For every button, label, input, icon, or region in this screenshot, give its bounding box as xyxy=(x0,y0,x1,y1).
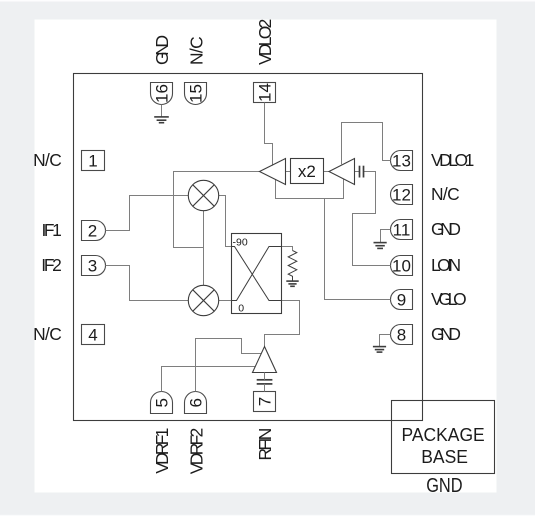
svg-text:13: 13 xyxy=(392,152,411,171)
pin 2 xyxy=(82,221,106,241)
svg-text:GND: GND xyxy=(431,324,461,344)
svg-text:N/C: N/C xyxy=(431,184,460,204)
wire: pin11 to ground xyxy=(381,230,391,243)
pin 8 xyxy=(391,325,413,345)
wire: mixer M2 to hybrid 0 port xyxy=(219,300,232,302)
wire: x2 to amp A2 tip xyxy=(324,171,330,173)
ground (pin 8) xyxy=(373,347,386,353)
capacitor C1 (LO input) xyxy=(360,166,364,178)
pin 14 xyxy=(254,83,276,103)
ground (pin 16) xyxy=(154,117,169,123)
pin 7 xyxy=(254,392,276,412)
wire: hybrid port to resistor R1 xyxy=(282,247,293,251)
svg-text:VDLO1: VDLO1 xyxy=(431,150,474,170)
wire VDLO2: pin14 to amp A1 xyxy=(265,103,273,166)
pin 12 xyxy=(391,185,413,205)
wire: amp A1 base to x2 xyxy=(286,171,291,173)
frequency doubler x2 xyxy=(291,159,324,184)
pin 9 xyxy=(391,290,413,310)
wire: mixer M1 to hybrid -90 port xyxy=(219,196,232,247)
svg-text:N/C: N/C xyxy=(186,36,206,65)
pin 1 xyxy=(82,151,105,171)
svg-text:2: 2 xyxy=(88,222,97,241)
mixer M1 xyxy=(188,180,218,210)
pin 11 xyxy=(391,220,413,240)
wire LO vertical: mixer M1 to mixer M2 xyxy=(203,211,205,286)
pin 13 xyxy=(391,151,413,171)
wire LOIN: cap C1 to pin10 xyxy=(353,172,391,266)
amp A3 (RF input amp) xyxy=(253,347,277,373)
wire IF2: pin3 to mixer M2 xyxy=(106,266,189,301)
pin 16 xyxy=(151,83,173,105)
svg-text:-90: -90 xyxy=(233,237,248,249)
wire: pin16 to ground xyxy=(161,105,163,117)
resistor R1 xyxy=(288,251,297,281)
svg-text:VGLO: VGLO xyxy=(431,289,467,309)
svg-text:14: 14 xyxy=(256,83,275,102)
svg-text:VDRF2: VDRF2 xyxy=(186,428,206,475)
amp A2 (LO input amp) xyxy=(329,159,355,185)
pin 15 xyxy=(185,83,207,105)
svg-text:6: 6 xyxy=(186,398,205,407)
svg-text:0: 0 xyxy=(238,302,244,314)
svg-text:16: 16 xyxy=(152,84,171,103)
wire VDRF2: pin6 to amp A3 xyxy=(196,339,262,392)
svg-text:1: 1 xyxy=(88,152,97,171)
svg-text:VDRF1: VDRF1 xyxy=(152,428,172,474)
wire: amp A2 base to cap C1 xyxy=(355,171,360,173)
pin 4 xyxy=(82,325,105,345)
ground (pin 11) xyxy=(374,243,387,249)
svg-text:9: 9 xyxy=(397,291,406,310)
capacitor C2 (RF input) xyxy=(257,373,273,392)
svg-text:3: 3 xyxy=(88,257,97,276)
wire: pin8 to ground xyxy=(380,335,391,347)
svg-text:GND: GND xyxy=(431,219,461,239)
pin 5 xyxy=(151,392,173,414)
svg-text:N/C: N/C xyxy=(33,150,62,170)
wire VGLO: bias rail to pin9 xyxy=(325,199,391,300)
svg-text:IF1: IF1 xyxy=(42,220,62,240)
svg-text:RFIN: RFIN xyxy=(255,428,275,461)
pin 6 xyxy=(185,392,207,414)
wire: hybrid output to amp A3 apex xyxy=(265,301,300,347)
wire VDLO1: pin13 to amp A2 xyxy=(342,123,391,165)
svg-text:8: 8 xyxy=(397,326,406,345)
PACKAGE BASE box xyxy=(392,401,495,474)
chip outline U1 xyxy=(74,74,423,421)
svg-text:VDLO2: VDLO2 xyxy=(255,19,275,65)
mixer M2 xyxy=(188,285,218,315)
wire LO: amp A1 output to mixer feed xyxy=(174,172,261,248)
svg-text:PACKAGE: PACKAGE xyxy=(402,425,485,445)
pin 3 xyxy=(82,256,106,276)
pin 10 xyxy=(391,256,413,276)
svg-text:BASE: BASE xyxy=(421,447,468,467)
svg-text:GND: GND xyxy=(152,35,172,65)
svg-text:12: 12 xyxy=(392,186,411,205)
svg-text:N/C: N/C xyxy=(33,324,62,344)
svg-text:4: 4 xyxy=(88,326,97,345)
svg-text:15: 15 xyxy=(186,84,205,103)
wire bias rail under LO amps xyxy=(276,179,344,199)
svg-text:x2: x2 xyxy=(298,162,316,181)
svg-text:11: 11 xyxy=(393,221,411,240)
wire VDRF1: pin5 to amp A3 xyxy=(162,367,256,392)
wire IF1: pin2 to mixer M1 xyxy=(106,196,189,231)
ground (resistor R1) xyxy=(286,281,298,286)
svg-text:5: 5 xyxy=(152,398,171,407)
amp A1 (LO amp) xyxy=(260,159,286,185)
svg-text:IF2: IF2 xyxy=(41,255,62,275)
svg-text:LOIN: LOIN xyxy=(431,255,461,275)
svg-text:GND: GND xyxy=(426,475,462,497)
hybrid coupler H1 xyxy=(232,234,282,315)
svg-text:7: 7 xyxy=(255,397,274,406)
svg-text:10: 10 xyxy=(392,257,411,276)
